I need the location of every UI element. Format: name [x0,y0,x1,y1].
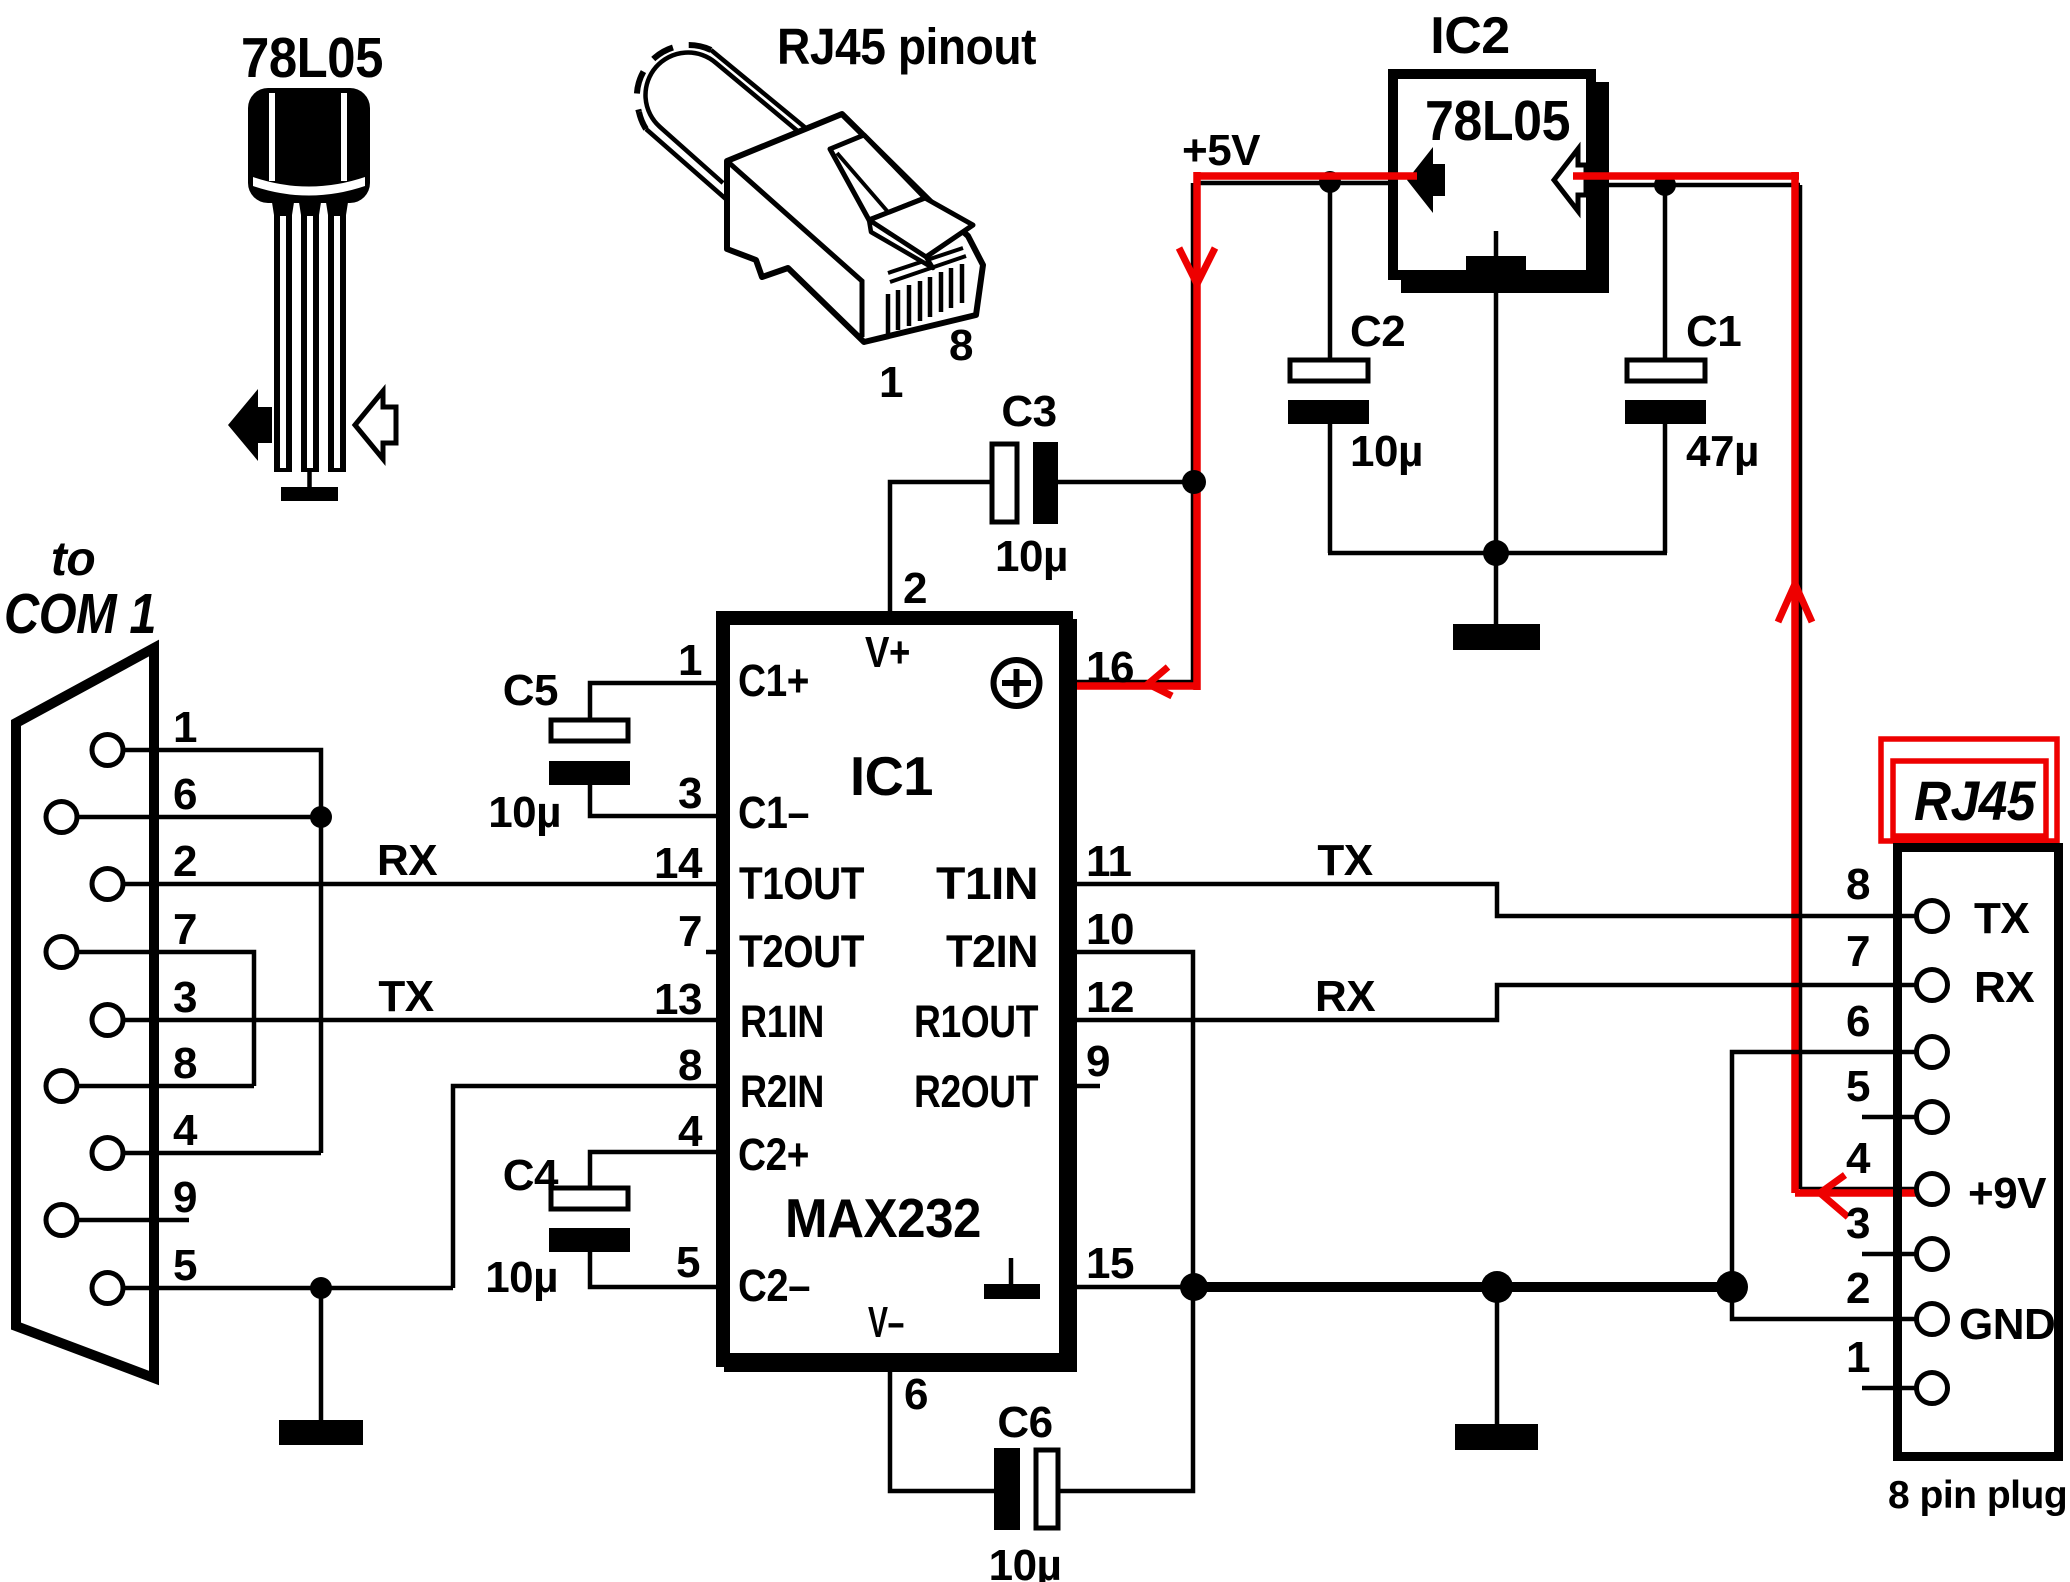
svg-text:TX: TX [378,972,433,1021]
regulator 78L05 lead 2 [298,196,322,472]
svg-text:T2IN: T2IN [946,926,1038,977]
junction pin15/C6/T2IN [1180,1273,1208,1301]
svg-text:C2–: C2– [738,1260,810,1311]
DB9 pin 7 circle [46,937,77,968]
RJ45 pin 8 circle [1917,901,1948,932]
svg-text:5: 5 [173,1241,197,1290]
svg-text:5: 5 [1846,1062,1870,1111]
RJ45 pin 4 circle [1917,1174,1948,1205]
svg-text:RX: RX [1315,972,1375,1021]
regulator 78L05 lead 1 [271,196,295,472]
red wire +5V down to IC1 pin16 [1193,172,1201,690]
DB9 pin 3 circle [92,1005,123,1036]
svg-text:6: 6 [904,1370,928,1419]
svg-text:9: 9 [173,1173,197,1222]
wire IC2 ground pin down [1494,293,1499,553]
svg-text:14: 14 [654,839,703,888]
wire +9V to RJ45 pin4 (black) [1800,1187,1918,1192]
regulator 78L05 lead 3 [325,196,349,472]
capacitor C4 [549,1188,630,1252]
ground symbol below IC2 [1453,553,1540,650]
svg-text:COM 1: COM 1 [4,582,156,646]
svg-text:2: 2 [903,564,927,613]
svg-text:15: 15 [1086,1239,1134,1288]
wire DB9 pin1 to loop [123,750,321,1153]
svg-text:4: 4 [173,1106,198,1155]
wire +5V rail left of IC2 (black under red) [1194,181,1388,186]
junction pin5/ground [310,1277,332,1299]
RJ45 pin5 stub [1862,1115,1917,1120]
ground rail thick wire [1194,1282,1745,1292]
capacitor C5 bottom wire to IC1 pin3 [590,785,716,816]
svg-text:78L05: 78L05 [241,26,383,90]
svg-text:5: 5 [676,1238,700,1287]
svg-text:9: 9 [1086,1037,1110,1086]
svg-text:10µ: 10µ [488,788,561,837]
svg-text:8: 8 [678,1041,702,1090]
svg-text:C1+: C1+ [738,655,809,706]
svg-text:2: 2 [1846,1264,1870,1313]
IC2 voltage regulator box [1393,74,1609,293]
ground symbol below DB9 [279,1288,363,1445]
RJ45 pin 5 circle [1917,1102,1948,1133]
RJ45 pin3 stub [1862,1252,1917,1257]
svg-text:C3: C3 [1001,387,1056,436]
capacitor C3 left wire / IC1 pin2 V+ riser [890,482,990,611]
capacitor C5 top wire to IC1 pin1 [590,683,716,718]
red arrow left into RJ45 pin4 [1820,1175,1848,1217]
RJ45 label red inner box [1893,761,2046,836]
svg-text:GND: GND [1959,1300,2055,1349]
DB9 pin 5 circle [92,1273,123,1304]
junction pin1/pin6 [310,806,332,828]
red wire +5V horizontal to IC2 output [1194,172,1417,180]
wire T2IN to ground junction [1073,952,1193,1287]
svg-text:TX: TX [1317,836,1372,885]
svg-text:IC1: IC1 [850,745,933,807]
DB9 connector outline [16,648,154,1378]
wire C2/C1 ground bus [1328,551,1667,556]
svg-text:1: 1 [173,703,197,752]
svg-text:V–: V– [868,1298,904,1347]
capacitor C3 right wire [1058,480,1194,485]
svg-text:C4: C4 [503,1151,559,1200]
svg-text:C5: C5 [503,666,558,715]
svg-text:8: 8 [949,321,973,370]
capacitor C2 top wire [1328,183,1333,358]
IC1 MAX232 box [723,618,1077,1372]
svg-text:6: 6 [173,770,197,819]
wire ground rail to RJ45 pin2 GND [1732,1287,1917,1319]
wire RX: DB9 pin2 to IC1 T1OUT [123,882,716,887]
svg-text:12: 12 [1086,973,1134,1022]
wire ground to IC1 R2IN [453,1086,716,1288]
svg-text:3: 3 [678,769,702,818]
IC1 pin16 V+ circle with plus [994,660,1040,706]
junction C1/red feed [1654,174,1676,196]
wire RJ45 pin6 to ground rail [1732,1052,1917,1287]
wire DB9 pin4 [123,1151,321,1156]
wire DB9 pin5 ground [123,1286,453,1291]
regulator 78L05 TO-92 body [248,88,370,203]
78L05 input arrow (open, pointing left) [355,391,396,459]
svg-text:RX: RX [377,836,437,885]
red arrow down on +5V drop [1179,248,1215,284]
IC2 input arrow (open, pointing left) [1554,149,1586,211]
svg-text:C1–: C1– [738,787,809,838]
svg-text:13: 13 [654,975,702,1024]
svg-text:7: 7 [173,905,197,954]
svg-text:7: 7 [678,907,702,956]
junction ground rail / RJ45 pin6-pin2 [1716,1271,1748,1303]
svg-text:T2OUT: T2OUT [739,926,864,977]
DB9 pin 1 circle [92,735,123,766]
red wire IC1 pin16 feed [1041,682,1200,690]
svg-text:78L05: 78L05 [1425,89,1570,153]
svg-text:3: 3 [1846,1199,1870,1248]
svg-text:6: 6 [1846,997,1870,1046]
DB9 pin 2 circle [92,869,123,900]
IC2 internal ground symbol [1466,231,1526,274]
svg-text:T1IN: T1IN [936,858,1038,909]
RJ45 pin 6 circle [1917,1037,1948,1068]
wire +9V vertical (black under red) [1798,185,1803,1189]
svg-text:1: 1 [879,358,903,407]
junction ground rail / ground symbol [1481,1271,1513,1303]
RJ45 pinout latch tab [830,135,925,220]
svg-text:MAX232: MAX232 [785,1187,981,1249]
svg-text:RX: RX [1974,963,2034,1012]
svg-text:C1: C1 [1686,307,1741,356]
wire DB9 pin6 [77,815,321,820]
svg-text:47µ: 47µ [1686,427,1759,476]
svg-text:T1OUT: T1OUT [739,858,864,909]
capacitor C2 [1288,360,1369,424]
svg-text:3: 3 [173,973,197,1022]
capacitor C6 right wire up to ground junction [1058,1287,1193,1491]
capacitor C1 bottom wire [1663,424,1668,553]
RJ45 pinout cable boot [637,45,813,200]
78L05 output arrow (filled, pointing left) [228,389,272,461]
RJ45 pin1 stub [1862,1386,1917,1391]
wire RX: IC1 R1OUT to RJ45 pin7 [1073,985,1917,1020]
wire pin16 horizontal (black) [1070,680,1195,685]
svg-text:C6: C6 [997,1398,1052,1447]
svg-text:8: 8 [173,1039,197,1088]
DB9 pin 8 circle [46,1071,77,1102]
wire from IC2 output to C1/right rail (black) [1601,183,1800,188]
IC1 pin9 stub [1073,1084,1100,1089]
svg-text:R2OUT: R2OUT [914,1066,1038,1117]
svg-text:RJ45: RJ45 [1914,769,2036,832]
junction C3 / +5V drop [1182,470,1206,494]
IC2 output arrow (filled, pointing left) [1407,147,1445,213]
svg-text:10µ: 10µ [485,1253,558,1302]
svg-text:+5V: +5V [1182,126,1261,175]
RJ45 pinout latch head [869,198,973,268]
svg-text:+9V: +9V [1968,1169,2047,1218]
capacitor C2 bottom wire [1328,424,1333,553]
svg-text:to: to [51,533,95,586]
svg-text:RJ45 pinout: RJ45 pinout [777,18,1036,75]
junction ground bus [1483,540,1509,566]
DB9 pin 9 circle [46,1205,77,1236]
svg-text:10µ: 10µ [1350,427,1423,476]
red wire +9V riser [1791,172,1799,1193]
RJ45 pinout contact pins [888,264,962,334]
svg-text:V+: V+ [865,628,910,677]
svg-text:R2IN: R2IN [740,1066,824,1117]
svg-text:2: 2 [173,837,197,886]
DB9 pin 6 circle [46,802,77,833]
capacitor C4 top wire to IC1 pin4 [590,1152,716,1186]
RJ45 pin 2 circle [1917,1304,1948,1335]
svg-text:R1OUT: R1OUT [914,996,1038,1047]
ground symbol under 78L05 [281,472,338,501]
wire TX: IC1 T1IN to RJ45 pin8 [1073,884,1917,916]
svg-text:10µ: 10µ [995,532,1068,581]
svg-text:IC2: IC2 [1430,7,1509,65]
red wire to RJ45 pin4 [1795,1189,1918,1197]
capacitor C4 bottom wire to IC1 pin5 [590,1252,716,1287]
wire IC1 pin6 V- drop [890,1367,994,1491]
red arrow up on +9V riser [1778,584,1812,622]
svg-text:11: 11 [1086,837,1132,886]
RJ45 pin 1 circle [1917,1373,1948,1404]
wire IC1 pin15 to ground junction [1073,1285,1194,1290]
RJ45 pinout plug body [727,114,983,342]
svg-text:1: 1 [678,636,702,685]
label to COM 1 [4,533,156,646]
IC1 internal ground symbol at pin15 [984,1258,1040,1299]
capacitor C3 [992,442,1058,524]
RJ45 pin 3 circle [1917,1239,1948,1270]
svg-text:10µ: 10µ [989,1541,1062,1582]
svg-text:C2: C2 [1350,307,1405,356]
wire DB9 pin8 [77,1084,254,1089]
wire DB9 pin7 to pin8 loop [77,952,254,1086]
svg-text:TX: TX [1974,894,2029,943]
wire DB9 pin9 stub [77,1218,189,1223]
red arrow left into pin16 [1148,667,1172,696]
svg-text:7: 7 [1846,927,1870,976]
RJ45 pin 7 circle [1917,970,1948,1001]
capacitor C5 [549,720,630,785]
wire TX: DB9 pin3 to IC1 R1IN [123,1018,716,1023]
red wire IC2 input from +9V riser [1573,172,1799,180]
svg-text:10: 10 [1086,905,1134,954]
wire +5V vertical to pin16 (black under red) [1191,183,1196,682]
svg-text:16: 16 [1086,643,1134,692]
svg-text:R1IN: R1IN [740,996,824,1047]
svg-text:C2+: C2+ [738,1129,809,1180]
capacitor C1 [1625,360,1706,424]
capacitor C1 top wire [1663,185,1668,358]
ground symbol below rail [1455,1287,1538,1450]
svg-text:1: 1 [1846,1333,1870,1382]
svg-text:8: 8 [1846,860,1870,909]
DB9 pin 4 circle [92,1138,123,1169]
svg-text:8 pin plug: 8 pin plug [1888,1474,2067,1517]
junction +5V/C2 [1319,171,1341,193]
svg-text:4: 4 [678,1107,703,1156]
svg-text:4: 4 [1846,1134,1871,1183]
IC1 pin7 stub [706,950,717,955]
RJ45 8 pin plug connector box [1898,848,2059,1457]
RJ45 label red outer box [1881,739,2057,841]
capacitor C6 [994,1448,1058,1530]
